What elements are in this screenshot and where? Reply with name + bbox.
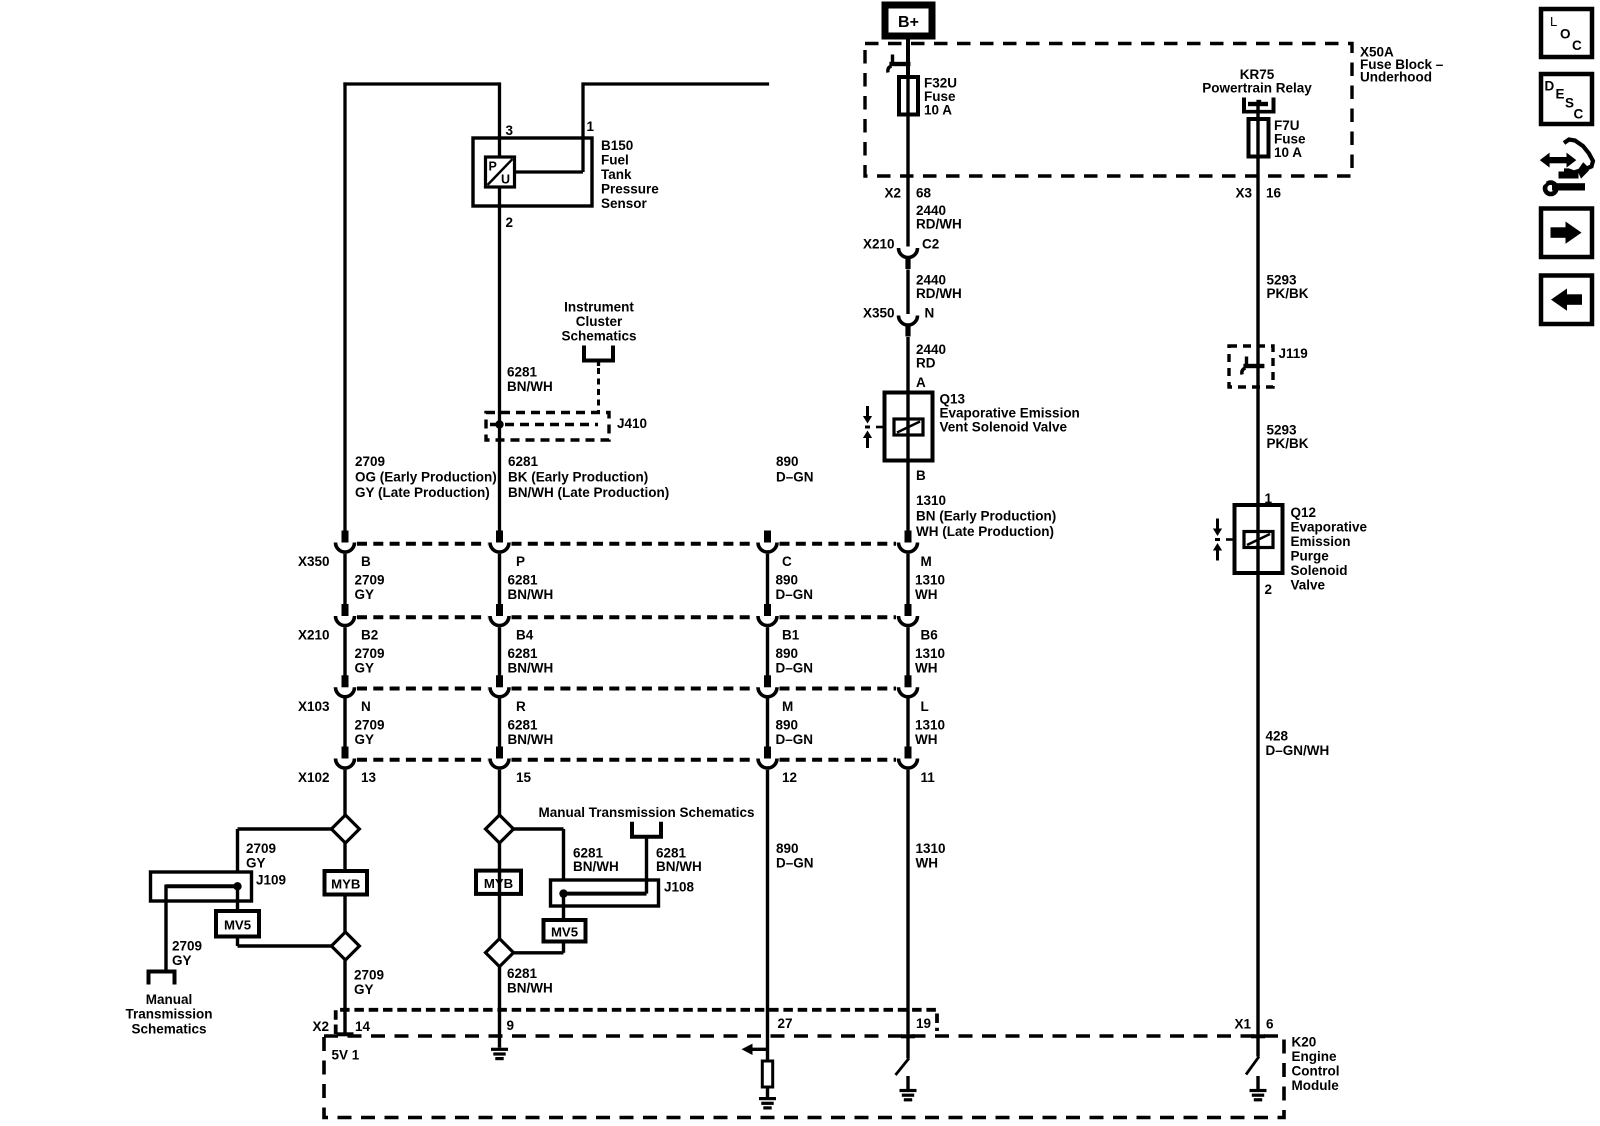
fuel tank pressure sensor B150 box: [473, 138, 592, 206]
svg-text:Module: Module: [1292, 1078, 1340, 1093]
connector MYB: [325, 871, 368, 895]
terminal bar at pin 19: [901, 1034, 915, 1038]
svg-text:15: 15: [516, 770, 532, 785]
svg-text:GY: GY: [355, 587, 375, 602]
svg-text:27: 27: [778, 1016, 793, 1031]
terminal bar at pin 14: [337, 1032, 354, 1036]
svg-text:2: 2: [506, 215, 514, 230]
svg-text:6281: 6281: [508, 646, 539, 661]
connector MV5: [544, 920, 586, 942]
reference bracket: [149, 972, 175, 985]
svg-text:X102: X102: [298, 770, 330, 785]
wire: [766, 770, 769, 1036]
connector X103 pin L: [905, 675, 912, 687]
svg-text:B1: B1: [782, 628, 800, 643]
connector X210 pin B4: [496, 604, 503, 616]
svg-text:GY: GY: [172, 953, 192, 968]
svg-text:1310: 1310: [915, 573, 945, 588]
svg-text:WH: WH: [915, 732, 938, 747]
svg-text:PK/BK: PK/BK: [1267, 436, 1309, 451]
svg-text:2709: 2709: [354, 968, 384, 983]
svg-text:D–GN: D–GN: [776, 587, 814, 602]
svg-text:X103: X103: [298, 699, 330, 714]
fuse F32U: [899, 77, 918, 115]
svg-text:C: C: [782, 554, 792, 569]
svg-text:2709: 2709: [172, 939, 202, 954]
svg-text:1: 1: [587, 119, 595, 134]
svg-text:Manual Transmission Schematics: Manual Transmission Schematics: [538, 805, 754, 820]
connector row X103 dashed line: [357, 687, 488, 691]
wire: [1256, 106, 1259, 119]
connector row X210 dashed line: [357, 615, 488, 619]
wire: [343, 82, 346, 532]
svg-text:Emission: Emission: [1291, 534, 1351, 549]
wire: [498, 627, 501, 676]
svg-text:6281: 6281: [508, 454, 539, 469]
connector X102 pin 11: [905, 747, 912, 759]
svg-text:BN (Early Production): BN (Early Production): [916, 509, 1056, 524]
connector X102 pin 15: [496, 747, 503, 759]
svg-text:2709: 2709: [355, 717, 385, 732]
svg-text:Schematics: Schematics: [561, 329, 636, 344]
connector X350 pin B: [342, 531, 349, 543]
svg-text:C: C: [1572, 38, 1582, 53]
signal arrow (to other circuit): [750, 1048, 768, 1051]
terminal bar at X1-6: [1251, 1034, 1265, 1038]
wire: [343, 770, 346, 815]
ground at pin 9: [498, 1036, 501, 1048]
svg-text:WH: WH: [915, 661, 938, 676]
wire: [766, 627, 769, 676]
svg-text:X210: X210: [298, 628, 330, 643]
svg-text:Evaporative Emission: Evaporative Emission: [940, 406, 1080, 421]
svg-text:6281: 6281: [507, 966, 538, 981]
svg-text:WH: WH: [915, 587, 938, 602]
wire: [343, 843, 346, 871]
svg-text:U: U: [501, 173, 510, 187]
sidebar icon DESC: [1541, 74, 1592, 124]
splice diamond: [486, 939, 514, 967]
svg-text:GY: GY: [246, 856, 266, 871]
connector row X350 dashed line: [357, 542, 488, 546]
wire: [906, 770, 909, 1036]
svg-text:L: L: [1550, 14, 1557, 29]
ECM K20 dashed box: [324, 1036, 1284, 1118]
svg-text:WH: WH: [916, 856, 939, 871]
svg-text:Powertrain Relay: Powertrain Relay: [1202, 81, 1312, 96]
svg-text:68: 68: [916, 186, 932, 201]
sidebar icon LOC: [1541, 9, 1592, 57]
svg-text:P: P: [516, 554, 525, 569]
svg-text:B: B: [916, 468, 926, 483]
svg-text:Pressure: Pressure: [601, 182, 659, 197]
svg-text:RD/WH: RD/WH: [916, 286, 962, 301]
wire: [906, 461, 909, 533]
svg-text:O: O: [1560, 27, 1571, 42]
wire: [562, 942, 565, 953]
svg-text:Q12: Q12: [1291, 505, 1317, 520]
svg-text:2: 2: [1265, 582, 1273, 597]
wire: [343, 82, 499, 85]
splice pack J410: [486, 413, 609, 441]
sidebar icon arrow left: [1541, 276, 1592, 325]
svg-text:D–GN: D–GN: [776, 470, 814, 485]
svg-text:B2: B2: [361, 628, 378, 643]
wire: [1256, 157, 1259, 191]
wire branch to J109: [238, 827, 332, 830]
wire: [1256, 347, 1259, 505]
svg-text:6281: 6281: [508, 573, 539, 588]
svg-text:RD/WH: RD/WH: [916, 217, 962, 232]
svg-text:2709: 2709: [355, 454, 385, 469]
svg-text:1310: 1310: [915, 717, 945, 732]
svg-text:Purge: Purge: [1291, 549, 1330, 564]
fuse F7U: [1249, 119, 1269, 157]
svg-text:C2: C2: [922, 237, 939, 252]
connector row X102 dashed line: [357, 758, 488, 762]
wire: [498, 554, 501, 605]
svg-text:P: P: [489, 160, 497, 174]
wire: [583, 82, 769, 85]
wire: [498, 967, 501, 1036]
svg-text:GY: GY: [355, 661, 375, 676]
svg-text:B+: B+: [898, 14, 919, 31]
svg-text:12: 12: [782, 770, 797, 785]
wire (dashed) to J410: [597, 368, 600, 412]
sidebar icon arrow right: [1541, 209, 1592, 258]
svg-text:D–GN: D–GN: [776, 661, 814, 676]
wire: [906, 37, 910, 78]
svg-text:19: 19: [916, 1016, 931, 1031]
svg-text:MV5: MV5: [551, 925, 578, 940]
svg-text:Vent Solenoid Valve: Vent Solenoid Valve: [940, 420, 1068, 435]
ground at X1-6: [1256, 1076, 1259, 1090]
wire: [906, 554, 909, 605]
svg-text:BN/WH: BN/WH: [508, 587, 554, 602]
connector X350 pin P: [496, 531, 503, 543]
splice diamond: [331, 932, 359, 960]
wire: [766, 554, 769, 605]
svg-text:N: N: [925, 306, 935, 321]
svg-text:Evaporative: Evaporative: [1291, 520, 1368, 535]
svg-text:6281: 6281: [508, 717, 539, 732]
svg-text:Engine: Engine: [1292, 1049, 1337, 1064]
svg-text:Fuel: Fuel: [601, 153, 629, 168]
svg-text:2709: 2709: [246, 841, 276, 856]
svg-text:MYB: MYB: [331, 877, 360, 892]
svg-text:10 A: 10 A: [924, 103, 952, 118]
svg-text:J119: J119: [1279, 346, 1308, 361]
svg-text:Q13: Q13: [940, 392, 966, 407]
svg-text:428: 428: [1266, 729, 1289, 744]
svg-text:1310: 1310: [916, 493, 946, 508]
switch blade: [1246, 1057, 1259, 1075]
relay KR75 contact symbol: [1242, 98, 1246, 114]
svg-text:E: E: [1556, 87, 1565, 102]
svg-text:RD: RD: [916, 356, 936, 371]
svg-text:X350: X350: [863, 306, 895, 321]
svg-text:X1: X1: [1234, 1017, 1251, 1032]
svg-text:J410: J410: [617, 416, 647, 431]
svg-text:GY (Late Production): GY (Late Production): [355, 485, 490, 500]
svg-text:PK/BK: PK/BK: [1267, 286, 1309, 301]
svg-text:MV5: MV5: [224, 918, 251, 933]
wire: [906, 115, 909, 191]
connector X103 pin M: [764, 675, 771, 687]
connector X210 pin B1: [764, 604, 771, 616]
ECM connector X2 dotted outline: [336, 1010, 937, 1034]
wire: [1256, 573, 1259, 1036]
svg-text:BN/WH: BN/WH: [507, 981, 553, 996]
svg-text:A: A: [916, 375, 926, 390]
svg-text:Underhood: Underhood: [1360, 70, 1432, 85]
splice J119: [1229, 346, 1273, 387]
wire: [1256, 1036, 1259, 1057]
svg-text:9: 9: [507, 1018, 515, 1033]
splice diamond: [486, 815, 514, 843]
wire: [906, 699, 909, 748]
sidebar icon schematic navigator: [1548, 157, 1569, 163]
svg-text:890: 890: [776, 717, 799, 732]
solenoid valve Q13: [885, 393, 933, 461]
svg-text:J109: J109: [256, 873, 286, 888]
svg-text:6: 6: [1266, 1017, 1274, 1032]
svg-text:890: 890: [776, 841, 799, 856]
svg-text:BN/WH: BN/WH: [507, 379, 553, 394]
svg-text:Schematics: Schematics: [131, 1021, 206, 1036]
svg-text:1310: 1310: [915, 646, 945, 661]
connector X210 pin B2: [342, 604, 349, 616]
svg-text:BN/WH: BN/WH: [573, 859, 619, 874]
svg-text:11: 11: [921, 770, 936, 785]
svg-text:14: 14: [355, 1019, 371, 1034]
svg-text:B150: B150: [601, 138, 633, 153]
svg-text:OG (Early Production): OG (Early Production): [355, 470, 497, 485]
connector X350 pin M: [905, 531, 912, 543]
svg-text:K20: K20: [1292, 1035, 1317, 1050]
P/U sensor cell: [486, 157, 515, 187]
svg-text:X2: X2: [884, 186, 901, 201]
svg-text:D–GN: D–GN: [776, 856, 814, 871]
wire: [498, 699, 501, 748]
wire: [498, 82, 501, 158]
wire: [343, 627, 346, 676]
svg-text:2709: 2709: [355, 646, 385, 661]
svg-text:GY: GY: [354, 982, 374, 997]
svg-text:X2: X2: [312, 1019, 329, 1034]
splice pack J109: [151, 872, 252, 901]
wire: [906, 270, 909, 315]
svg-text:B4: B4: [516, 628, 534, 643]
svg-text:J108: J108: [664, 880, 695, 895]
svg-text:2709: 2709: [355, 573, 385, 588]
resistor (internal): [762, 1061, 772, 1087]
svg-text:16: 16: [1266, 186, 1282, 201]
solenoid valve Q12: [1235, 505, 1283, 573]
svg-text:BK (Early Production): BK (Early Production): [508, 470, 648, 485]
svg-text:L: L: [921, 699, 929, 714]
fuse clip hook: [891, 55, 894, 64]
wire: [236, 886, 239, 911]
wire: [498, 186, 501, 532]
svg-text:GY: GY: [355, 732, 375, 747]
svg-text:1310: 1310: [916, 841, 946, 856]
battery feed B+: [885, 5, 932, 36]
splice diamond: [331, 815, 359, 843]
svg-text:13: 13: [361, 770, 377, 785]
svg-text:3: 3: [506, 123, 514, 138]
svg-text:M: M: [782, 699, 793, 714]
svg-text:890: 890: [776, 573, 799, 588]
wire: [343, 554, 346, 605]
wire: [343, 960, 346, 1036]
connector X103 pin R: [496, 675, 503, 687]
svg-text:C: C: [1574, 107, 1584, 122]
wire: [766, 699, 769, 748]
svg-text:X210: X210: [863, 237, 895, 252]
svg-text:D–GN: D–GN: [776, 732, 814, 747]
svg-text:B6: B6: [921, 628, 939, 643]
svg-text:Transmission: Transmission: [125, 1007, 212, 1022]
svg-text:Control: Control: [1292, 1064, 1340, 1079]
svg-text:BN/WH: BN/WH: [508, 732, 554, 747]
svg-text:X350: X350: [298, 554, 330, 569]
connector X103 pin N: [342, 675, 349, 687]
svg-text:890: 890: [776, 454, 799, 469]
svg-text:Sensor: Sensor: [601, 196, 648, 211]
svg-text:Tank: Tank: [601, 167, 632, 182]
splice branch down-left to manual transmission: [164, 885, 167, 972]
fuse block X50A dashed box: [865, 44, 1352, 177]
svg-text:BN/WH: BN/WH: [508, 661, 554, 676]
svg-text:BN/WH (Late Production): BN/WH (Late Production): [508, 485, 669, 500]
svg-text:B: B: [361, 554, 371, 569]
svg-text:Solenoid: Solenoid: [1291, 563, 1348, 578]
switch blade: [896, 1058, 910, 1075]
svg-text:WH (Late Production): WH (Late Production): [916, 524, 1054, 539]
connector X350 pin C: [764, 531, 771, 543]
svg-text:D–GN/WH: D–GN/WH: [1266, 743, 1330, 758]
wire: [562, 894, 565, 920]
svg-text:X3: X3: [1235, 186, 1252, 201]
svg-text:6281: 6281: [507, 365, 538, 380]
wire: [581, 82, 584, 172]
wire: [236, 937, 239, 947]
wire: [514, 170, 583, 173]
wire: [498, 770, 501, 939]
svg-text:MYB: MYB: [484, 876, 513, 891]
svg-text:10 A: 10 A: [1274, 145, 1302, 160]
svg-text:R: R: [516, 699, 526, 714]
svg-text:N: N: [361, 699, 371, 714]
svg-text:BN/WH: BN/WH: [656, 859, 702, 874]
connector X210 pin B6: [905, 604, 912, 616]
svg-text:D: D: [1545, 79, 1555, 94]
svg-text:890: 890: [776, 646, 799, 661]
wire: [766, 1036, 769, 1061]
wire: [645, 837, 648, 894]
svg-text:Cluster: Cluster: [576, 314, 623, 329]
wire branch to J108: [514, 827, 564, 830]
wire: [906, 337, 909, 393]
ground at pin 27: [766, 1087, 769, 1098]
wire: [906, 627, 909, 676]
connector MYB: [476, 871, 521, 894]
wire: [906, 1036, 909, 1058]
wire: [1256, 190, 1259, 347]
wire: [906, 190, 909, 247]
wire: [343, 699, 346, 748]
svg-text:Valve: Valve: [1291, 578, 1326, 593]
valve symbol arrows: [866, 406, 869, 417]
splice pack J108: [551, 880, 659, 906]
svg-text:M: M: [921, 554, 932, 569]
connector X102 pin 13: [342, 747, 349, 759]
svg-text:5V 1: 5V 1: [332, 1048, 360, 1063]
ground at pin 19: [906, 1076, 909, 1090]
connector X102 pin 12: [764, 747, 771, 759]
valve symbol arrows: [1216, 519, 1219, 530]
connector MV5: [216, 911, 259, 937]
svg-text:Instrument: Instrument: [564, 300, 634, 315]
svg-text:Manual: Manual: [146, 992, 193, 1007]
